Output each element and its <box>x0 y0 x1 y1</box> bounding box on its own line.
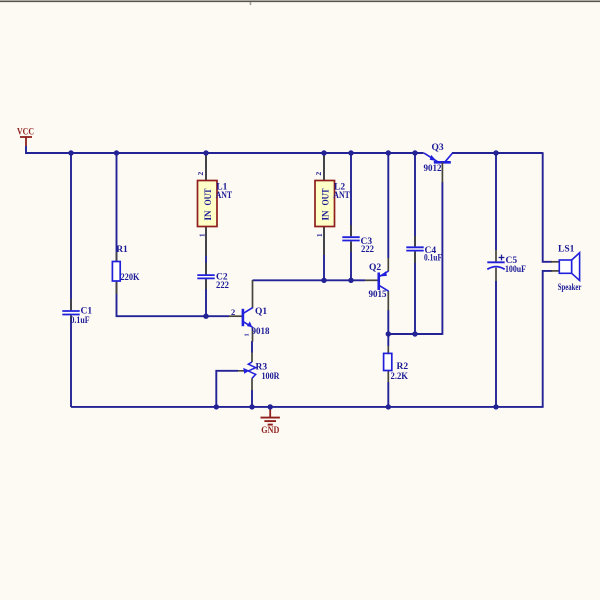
svg-text:LS1: LS1 <box>558 245 575 255</box>
rheostat R3 100R <box>238 353 280 391</box>
ground GND symbol <box>261 407 280 436</box>
svg-text:R1: R1 <box>116 245 128 255</box>
wire L2 bottom to base wire <box>323 226 325 280</box>
wire VCC rail <box>26 152 424 154</box>
svg-text:222: 222 <box>216 281 229 291</box>
junction dots Q2 collector node <box>386 331 418 336</box>
wire C5 branch lower <box>495 281 497 407</box>
inductor L2 (ANT) <box>314 154 350 255</box>
svg-text:IN: IN <box>321 210 331 220</box>
transistor Q1 9018 NPN <box>229 280 270 342</box>
junction dot Q1 base node <box>203 314 208 319</box>
svg-text:Q2: Q2 <box>369 263 381 273</box>
power port VCC <box>17 128 34 154</box>
wire Q3 base net vertical <box>441 182 443 335</box>
wire Q1 collector to Q2 base <box>253 279 366 281</box>
wire C2 bottom to Q1 base net <box>205 279 207 317</box>
svg-text:Q3: Q3 <box>432 143 444 153</box>
svg-text:220K: 220K <box>121 273 141 283</box>
wire R2 bottom <box>387 382 389 407</box>
wire C4 branch upper <box>414 152 416 246</box>
svg-text:2.2K: 2.2K <box>391 372 409 382</box>
wire C3 branch lower <box>350 242 352 282</box>
wire Q2 emitter branch <box>387 152 389 258</box>
wire R3 bottom to ground <box>251 390 253 407</box>
wire C5 branch upper <box>495 152 497 250</box>
wire L1 bottom to C2 <box>205 226 207 274</box>
svg-text:1: 1 <box>316 233 324 237</box>
wire R1 branch upper <box>116 152 118 261</box>
svg-text:Speaker: Speaker <box>558 283 582 293</box>
svg-text:2: 2 <box>196 172 205 176</box>
svg-text:0.1uF: 0.1uF <box>71 316 90 326</box>
wire Q1 emitter to R3 <box>251 341 253 353</box>
capacitor C2 222 <box>197 263 229 291</box>
svg-text:ANT: ANT <box>333 191 350 201</box>
wire C1 branch lower <box>70 315 72 407</box>
wire R2 top <box>387 333 389 346</box>
inductor L1 (ANT) <box>196 154 233 256</box>
svg-text:2: 2 <box>231 307 235 317</box>
svg-text:ANT: ANT <box>216 191 233 201</box>
svg-text:R2: R2 <box>397 362 409 372</box>
wire Q2 collector node horizontal <box>388 310 442 334</box>
capacitor C4 0.1uF <box>406 236 442 264</box>
svg-text:Q1: Q1 <box>255 307 267 317</box>
svg-text:9012: 9012 <box>424 164 442 174</box>
capacitor C1 0.1uF <box>62 299 92 326</box>
junction dots ground rail <box>214 404 499 409</box>
svg-text:9018: 9018 <box>252 327 270 337</box>
svg-text:OUT: OUT <box>321 189 331 206</box>
wire R1 bottom to Q1 base <box>117 281 230 316</box>
junction dots top rail <box>68 150 498 155</box>
wire R3 wiper arm <box>216 371 238 407</box>
resistor R1 220K <box>112 245 140 294</box>
svg-text:100R: 100R <box>262 372 280 382</box>
svg-text:IN: IN <box>203 210 213 220</box>
wire C1 branch upper <box>70 152 72 310</box>
wire C4 branch lower <box>414 252 416 334</box>
svg-text:9015: 9015 <box>369 290 387 300</box>
speaker LS1 <box>551 245 582 294</box>
wire L2 top pin net <box>323 152 325 180</box>
top border line <box>0 1 600 5</box>
junction dots base wire <box>321 278 353 283</box>
capacitor C5 100uF electrolytic <box>487 250 526 281</box>
svg-text:222: 222 <box>361 245 374 255</box>
resistor R2 2.2K <box>384 346 409 382</box>
wire Q3 collector net top right <box>452 152 543 154</box>
wire ground rail <box>71 406 544 408</box>
svg-text:1: 1 <box>244 333 251 336</box>
transistor Q2 9015 PNP <box>365 258 389 311</box>
svg-text:0.1uF: 0.1uF <box>424 254 442 264</box>
svg-text:GND: GND <box>261 426 279 436</box>
capacitor C3 222 <box>342 225 374 255</box>
wire C3 branch upper <box>350 152 352 236</box>
wire right drop to speaker top pin <box>543 152 552 262</box>
wire L1 top pin net <box>205 152 207 180</box>
svg-text:2: 2 <box>314 172 323 176</box>
wire speaker bottom return to ground <box>543 271 552 407</box>
svg-text:OUT: OUT <box>203 189 213 206</box>
svg-text:100uF: 100uF <box>505 265 526 275</box>
svg-text:1: 1 <box>199 233 207 237</box>
transistor Q3 9012 PNP horizontal <box>424 143 453 183</box>
